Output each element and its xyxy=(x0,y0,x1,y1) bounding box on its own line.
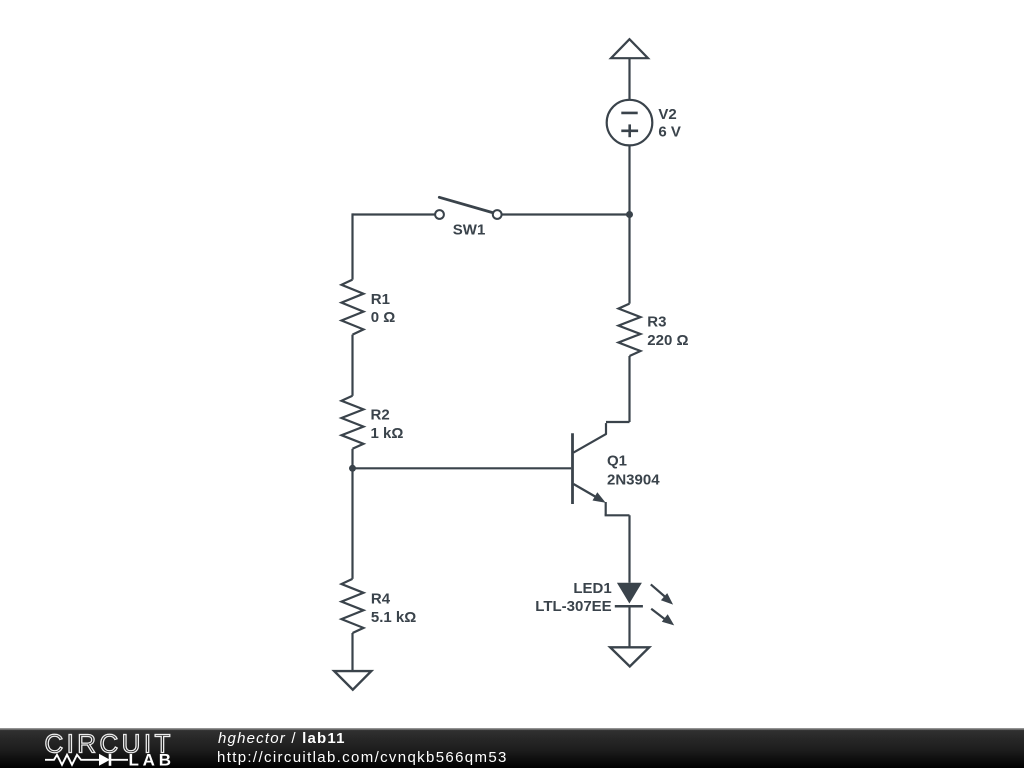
svg-text:R4: R4 xyxy=(371,591,391,608)
svg-text:R1: R1 xyxy=(371,291,390,308)
svg-text:R3: R3 xyxy=(647,314,666,331)
svg-text:1 kΩ: 1 kΩ xyxy=(371,425,404,442)
svg-text:0 Ω: 0 Ω xyxy=(371,309,396,326)
svg-text:220 Ω: 220 Ω xyxy=(647,332,688,349)
svg-text:Q1: Q1 xyxy=(607,453,627,470)
svg-text:V2: V2 xyxy=(658,106,676,123)
svg-text:R2: R2 xyxy=(371,407,390,424)
svg-text:SW1: SW1 xyxy=(453,222,486,239)
svg-text:LAB: LAB xyxy=(129,751,175,768)
svg-text:LED1: LED1 xyxy=(573,580,611,597)
svg-text:LTL-307EE: LTL-307EE xyxy=(535,598,611,615)
svg-text:2N3904: 2N3904 xyxy=(607,472,660,489)
svg-text:6 V: 6 V xyxy=(658,123,681,140)
svg-text:5.1 kΩ: 5.1 kΩ xyxy=(371,609,416,626)
